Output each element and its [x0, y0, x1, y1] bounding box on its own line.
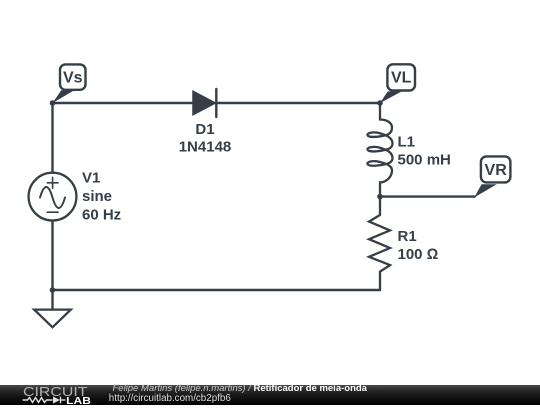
junction dot at VR node [377, 194, 383, 200]
wire Vs node to D1 anode [53, 102, 195, 104]
inductor L1 [367, 103, 392, 197]
diode D1 [193, 89, 216, 117]
wire ground lead [51, 290, 53, 309]
svg-text:60 Hz: 60 Hz [82, 207, 121, 224]
ground [34, 310, 71, 328]
junction dot at Vs node [50, 100, 56, 106]
wire D1 cathode to VL node [216, 102, 380, 104]
svg-text:VR: VR [485, 162, 508, 179]
CircuitLab logo [0, 385, 100, 406]
svg-text:R1: R1 [398, 228, 417, 245]
wire left rail lower (V1 bottom to ground node) [51, 221, 53, 291]
node flag VL [380, 64, 415, 103]
wire left rail upper (Vs node to V1 top) [51, 103, 53, 173]
svg-text:V1: V1 [82, 170, 100, 187]
node flag VR [474, 156, 510, 197]
junction dot at ground node [50, 287, 56, 293]
svg-text:VL: VL [391, 70, 412, 87]
wire VR tap [380, 195, 475, 197]
footer bar [0, 385, 540, 405]
svg-text:100 Ω: 100 Ω [398, 246, 439, 263]
svg-text:sine: sine [82, 188, 112, 205]
node flag Vs [53, 64, 86, 103]
svg-text:1N4148: 1N4148 [179, 138, 232, 155]
voltage source V1 [29, 173, 77, 221]
junction dot at VL node [377, 100, 383, 106]
svg-text:L1: L1 [398, 133, 416, 150]
svg-text:500 mH: 500 mH [398, 151, 451, 168]
footer credit text [113, 384, 367, 394]
resistor R1 [369, 197, 390, 290]
wire bottom rail [53, 289, 381, 291]
svg-text:Vs: Vs [63, 70, 83, 87]
svg-text:D1: D1 [195, 121, 214, 138]
